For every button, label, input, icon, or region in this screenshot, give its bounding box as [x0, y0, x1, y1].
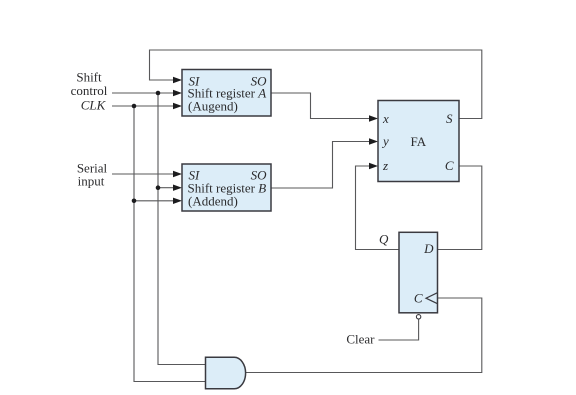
clear bubble under flip-flop	[416, 315, 420, 319]
wire Q output of flip-flop to z input of FA	[356, 166, 400, 250]
full adder FA box	[378, 101, 459, 182]
junction dot shift-control / register B row	[156, 185, 161, 190]
wire SO of register B to y input of FA	[271, 142, 370, 189]
junction dot shift-control / register A row	[156, 91, 161, 96]
wire SO of register A to x input of FA	[271, 93, 370, 119]
junction dot CLK / register B row	[132, 199, 137, 204]
svg-text:Q: Q	[379, 232, 389, 247]
svg-text:(Augend): (Augend)	[188, 99, 238, 114]
svg-text:C: C	[445, 158, 454, 173]
wire shift-control branch into register B	[158, 187, 174, 189]
svg-text:FA: FA	[411, 134, 427, 149]
wire Serial input	[112, 173, 174, 175]
svg-text:x: x	[382, 111, 389, 126]
wire Clear input to bubble	[379, 319, 419, 340]
AND gate G1	[206, 357, 246, 389]
wire Shift control input	[112, 92, 174, 94]
arrowhead CLK into register B	[173, 198, 182, 204]
wire AND gate output to clock input of flip-flop	[246, 298, 482, 373]
shift register A box	[182, 70, 271, 117]
arrowhead into z input of FA	[369, 163, 378, 169]
svg-text:S: S	[446, 111, 453, 126]
D flip-flop box	[399, 232, 438, 312]
svg-text:CLK: CLK	[81, 98, 107, 113]
svg-text:C: C	[414, 290, 423, 305]
svg-text:y: y	[381, 134, 389, 149]
svg-text:input: input	[78, 174, 105, 189]
svg-text:Clear: Clear	[346, 332, 375, 347]
wire shift-control vertical bus to AND gate top input	[158, 93, 206, 365]
arrowhead CLK into register A	[173, 103, 182, 109]
arrowhead Serial input into register B	[173, 171, 182, 177]
svg-text:(Addend): (Addend)	[188, 194, 238, 209]
arrowhead shift control into register B	[173, 185, 182, 191]
svg-text:z: z	[382, 158, 388, 173]
wire CLK vertical bus to AND gate bottom input	[134, 106, 206, 382]
arrowhead into x input of FA	[369, 115, 378, 121]
wire CLK input	[112, 105, 174, 107]
wire C output of FA to D input of flip-flop	[438, 166, 482, 250]
wire CLK branch into register B	[134, 200, 174, 202]
arrowhead into y input of FA	[369, 138, 378, 144]
svg-text:D: D	[423, 241, 434, 256]
junction dot CLK / register A row	[132, 104, 137, 109]
svg-text:control: control	[71, 83, 108, 98]
arrowhead into SI of register A	[173, 77, 182, 83]
clock edge triangle of flip-flop	[426, 293, 437, 304]
arrowhead shift control into register A	[173, 90, 182, 96]
wire S-feedback from FA S output to SI of register A	[150, 50, 482, 119]
shift register B box	[182, 164, 271, 211]
